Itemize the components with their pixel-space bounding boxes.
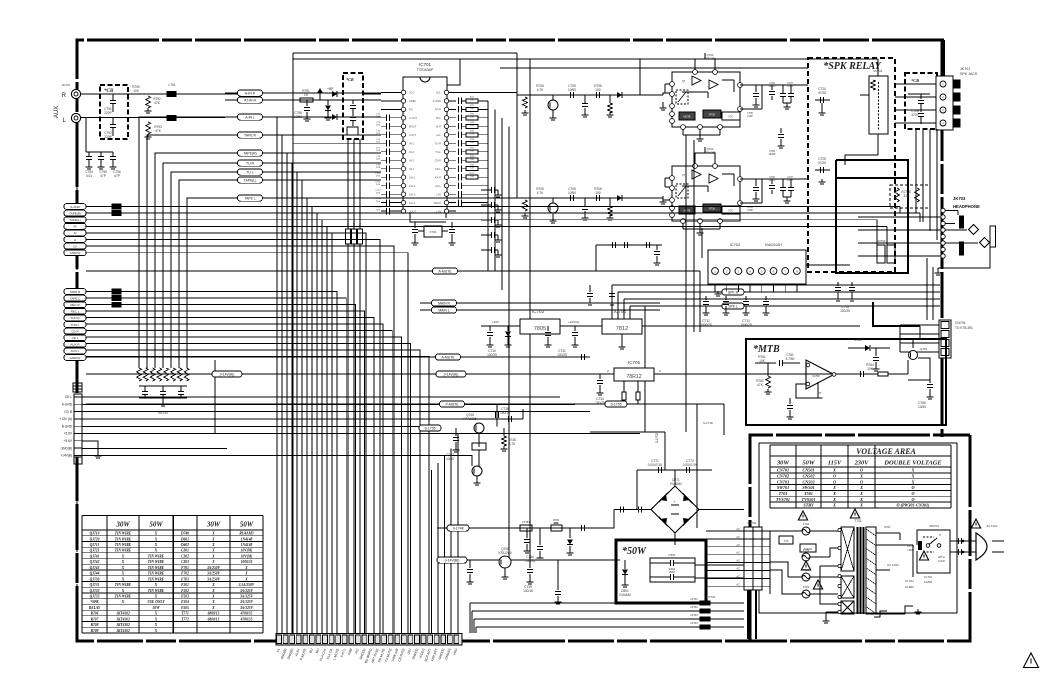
svg-text:L-IN: L-IN [436, 192, 441, 196]
svg-text:470P: 470P [911, 113, 918, 117]
svg-text:R728: R728 [709, 208, 715, 211]
svg-text:X: X [154, 549, 158, 553]
svg-text:O: O [860, 479, 863, 484]
svg-text:QJ730: QJ730 [90, 577, 100, 581]
svg-text:*SPK: *SPK [90, 600, 99, 604]
svg-text:CN701: CN701 [747, 521, 757, 525]
svg-text:AC: AC [736, 582, 740, 586]
svg-text:O: O [860, 468, 863, 473]
svg-text:10/50: 10/50 [568, 88, 576, 92]
svg-text:CN503: CN503 [802, 479, 814, 484]
svg-text:TAPE R: TAPE R [244, 134, 257, 138]
svg-text:P701: P701 [708, 595, 715, 599]
svg-text:R710: R710 [469, 173, 475, 175]
svg-text:47K: 47K [155, 129, 162, 133]
svg-text:100/16: 100/16 [500, 411, 510, 415]
svg-text:100/25: 100/25 [487, 353, 497, 357]
svg-text:MUTE: MUTE [684, 210, 691, 213]
svg-text:X: X [859, 485, 863, 490]
svg-text:TIN WIRE: TIN WIRE [148, 577, 165, 581]
svg-text:R: R [62, 93, 67, 99]
svg-text:CD L: CD L [65, 395, 72, 399]
svg-text:X: X [121, 554, 125, 558]
svg-text:AC: AC [736, 543, 740, 547]
svg-text:AX-R: AX-R [435, 175, 441, 179]
svg-text:*CB: *CB [911, 78, 919, 83]
svg-text:IC702: IC702 [730, 242, 741, 247]
svg-text:T701: T701 [854, 519, 861, 523]
svg-text:47/25: 47/25 [818, 161, 826, 165]
svg-text:TIN WIRE: TIN WIRE [115, 549, 132, 553]
svg-text:10K: 10K [759, 359, 766, 363]
svg-text:DI: DI [74, 244, 77, 248]
svg-text:+12V(A): +12V(A) [568, 320, 579, 324]
svg-text:TP-L: TP-L [435, 116, 441, 120]
svg-text:VOLTAGE AREA: VOLTAGE AREA [856, 447, 916, 456]
svg-text:TP781: TP781 [522, 520, 530, 524]
svg-text:F503: F503 [181, 595, 189, 599]
svg-text:F701: F701 [181, 566, 189, 570]
svg-text:AUX L: AUX L [71, 349, 80, 353]
svg-text:10K: 10K [470, 108, 474, 110]
svg-text:X: X [832, 485, 836, 490]
svg-text:10/50: 10/50 [294, 115, 302, 119]
svg-text:X: X [211, 560, 215, 564]
svg-text:S-1702: S-1702 [655, 433, 659, 444]
svg-text:TAPE R: TAPE R [70, 290, 81, 294]
svg-text:S-1718: S-1718 [703, 421, 713, 425]
svg-text:4700/35: 4700/35 [240, 612, 253, 616]
svg-text:A-IN L: A-IN L [245, 116, 255, 120]
svg-text:KTA1266: KTA1266 [704, 150, 716, 154]
svg-text:KTC: KTC [729, 116, 734, 119]
svg-text:F702: F702 [181, 572, 189, 576]
svg-text:S-1748: S-1748 [453, 527, 464, 531]
svg-text:CD R: CD R [64, 410, 72, 414]
svg-text:1N4148: 1N4148 [241, 543, 253, 547]
svg-text:QJ741: QJ741 [90, 554, 100, 558]
svg-text:O: O [911, 497, 914, 502]
svg-text:TP-R: TP-R [435, 108, 441, 112]
svg-text:LOCK: LOCK [938, 559, 945, 563]
svg-text:X701: X701 [429, 230, 436, 234]
svg-text:10K: 10K [470, 159, 474, 161]
svg-text:10/50: 10/50 [918, 405, 926, 409]
svg-text:CL701: CL701 [924, 575, 933, 579]
svg-text:LIN-2: LIN-2 [409, 184, 416, 188]
svg-text:TU L: TU L [246, 171, 253, 175]
svg-text:AC: AC [736, 527, 740, 531]
svg-text:X: X [244, 572, 248, 576]
svg-text:O: O [911, 485, 914, 490]
svg-text:LF704: LF704 [690, 621, 698, 625]
svg-text:1000P: 1000P [769, 153, 776, 156]
svg-text:F504: F504 [181, 600, 189, 604]
svg-text:KTA1266: KTA1266 [463, 417, 476, 421]
svg-text:TO KTB-391: TO KTB-391 [955, 326, 973, 330]
svg-text:A-CNT: A-CNT [409, 116, 417, 120]
svg-text:X: X [121, 566, 125, 570]
svg-text:X: X [154, 617, 158, 621]
svg-text:SW701: SW701 [929, 524, 939, 528]
svg-text:GND(S): GND(S) [70, 251, 81, 255]
svg-text:MOUT: MOUT [409, 125, 417, 129]
svg-text:*MTB: *MTB [753, 344, 780, 355]
svg-text:50W: 50W [149, 521, 163, 529]
svg-text:7812: 7812 [616, 326, 628, 332]
svg-text:SW501: SW501 [802, 485, 814, 490]
svg-text:100: 100 [595, 191, 601, 195]
svg-text:+5.6V: +5.6V [64, 439, 73, 443]
svg-text:T772: T772 [181, 617, 189, 621]
svg-text:X: X [911, 479, 915, 484]
svg-text:S-1705: S-1705 [611, 403, 622, 407]
svg-text:0.0047/1K: 0.0047/1K [683, 463, 698, 467]
svg-text:IC701: IC701 [419, 62, 432, 67]
svg-text:6800/15: 6800/15 [208, 612, 220, 616]
svg-text:SCL: SCL [436, 91, 442, 95]
svg-text:LF702: LF702 [690, 605, 698, 609]
svg-text:LIN-1: LIN-1 [409, 175, 416, 179]
svg-text:T701: T701 [779, 491, 788, 496]
svg-text:TVS701: TVS701 [776, 497, 790, 502]
svg-text:C710: C710 [375, 173, 381, 175]
svg-text:100: 100 [595, 88, 601, 92]
svg-text:AUX: AUX [54, 106, 60, 118]
svg-text:RI: RI [74, 225, 77, 229]
svg-text:TAPE(R): TAPE(R) [69, 211, 81, 215]
svg-text:IC705: IC705 [628, 360, 641, 365]
svg-text:QJ731: QJ731 [90, 583, 100, 587]
svg-text:270P: 270P [747, 209, 753, 212]
svg-text:X: X [154, 532, 158, 536]
svg-text:3A/250V: 3A/250V [206, 572, 221, 576]
svg-text:1KT4102: 1KT4102 [116, 623, 130, 627]
svg-text:CD-R: CD-R [435, 158, 442, 162]
svg-text:C714: C714 [375, 207, 381, 209]
svg-text:TC9163AP: TC9163AP [417, 68, 434, 72]
svg-text:X: X [211, 532, 215, 536]
svg-text:4.7K: 4.7K [537, 191, 544, 195]
svg-text:RT: RT [818, 391, 822, 395]
svg-text:6800/15: 6800/15 [208, 617, 220, 621]
svg-text:X: X [859, 473, 863, 478]
svg-text:4.7/50: 4.7/50 [786, 357, 795, 361]
svg-text:TIN WIRE: TIN WIRE [115, 583, 132, 587]
svg-text:AC: AC [736, 559, 740, 563]
svg-text:X: X [832, 491, 836, 496]
svg-text:X: X [211, 589, 215, 593]
svg-text:115V: 115V [828, 460, 842, 467]
svg-text:C712: C712 [375, 190, 381, 192]
svg-text:TIN WIRE: TIN WIRE [148, 560, 165, 564]
svg-text:3A/125V: 3A/125V [239, 600, 254, 604]
svg-text:4.7K: 4.7K [537, 88, 544, 92]
svg-text:X: X [244, 566, 248, 570]
svg-text:3A/250V: 3A/250V [206, 566, 221, 570]
svg-text:QJ720: QJ720 [90, 537, 100, 541]
svg-text:X: X [211, 600, 215, 604]
svg-text:D601: D601 [180, 537, 189, 541]
svg-text:AT-IN R: AT-IN R [244, 99, 256, 103]
svg-text:X: X [154, 629, 158, 633]
svg-text:RELAY: RELAY [89, 606, 101, 610]
svg-text:L791: L791 [168, 83, 175, 87]
svg-text:3.5A/250V: 3.5A/250V [238, 583, 255, 587]
svg-text:X: X [154, 595, 158, 599]
svg-text:TIN WIRE: TIN WIRE [148, 554, 165, 558]
svg-text:X: X [121, 577, 125, 581]
svg-text:50W: 50W [240, 521, 254, 529]
svg-text:1000/35: 1000/35 [241, 560, 253, 564]
svg-text:C711: C711 [375, 181, 381, 183]
svg-text:WITH: WITH [938, 555, 945, 559]
svg-text:AC 120V: AC 120V [986, 524, 997, 528]
svg-text:MUTE: MUTE [684, 116, 691, 119]
svg-text:+13V (A): +13V (A) [59, 417, 72, 421]
svg-text:100: 100 [133, 89, 139, 93]
svg-text:R708: R708 [91, 623, 99, 627]
svg-text:CD L: CD L [72, 336, 79, 340]
svg-text:IC703: IC703 [532, 309, 545, 314]
svg-text:*50W: *50W [622, 546, 647, 557]
svg-text:R709: R709 [91, 629, 99, 633]
svg-text:X: X [211, 583, 215, 587]
svg-text:TAPE(L): TAPE(L) [244, 179, 257, 183]
svg-text:A-GND: A-GND [62, 403, 73, 407]
svg-text:0.015: 0.015 [787, 179, 794, 182]
svg-text:O: O [833, 473, 836, 478]
svg-text:+16V: +16V [492, 320, 499, 324]
svg-text:X: X [154, 537, 158, 541]
svg-text:A-IN R: A-IN R [245, 92, 256, 96]
svg-text:TIN WIRE: TIN WIRE [115, 595, 132, 599]
svg-text:D761: D761 [854, 338, 862, 342]
svg-text:220P: 220P [104, 111, 111, 115]
svg-text:S701: S701 [884, 525, 891, 529]
svg-text:4.7K: 4.7K [509, 442, 516, 446]
svg-text:X: X [154, 543, 158, 547]
svg-text:P: P [939, 533, 941, 537]
svg-text:QJ742: QJ742 [90, 560, 100, 564]
svg-text:(+14V(A)): (+14V(A)) [444, 373, 459, 377]
svg-text:10K: 10K [470, 142, 474, 144]
svg-text:RU4AM: RU4AM [619, 593, 631, 597]
svg-text:CREF: CREF [409, 99, 416, 103]
svg-text:1N4148: 1N4148 [241, 537, 253, 541]
svg-text:MAIN R: MAIN R [438, 302, 450, 306]
svg-text:47/25: 47/25 [818, 91, 826, 95]
svg-text:7805: 7805 [534, 326, 546, 332]
svg-text:IC704: IC704 [614, 309, 627, 314]
svg-text:REC L: REC L [71, 310, 80, 314]
svg-text:C301: C301 [181, 549, 189, 553]
svg-text:X: X [244, 577, 248, 581]
svg-text:R707: R707 [91, 617, 99, 621]
svg-text:TU R: TU R [246, 162, 254, 166]
svg-text:47K: 47K [154, 101, 161, 105]
svg-text:A-GND: A-GND [70, 205, 81, 209]
svg-text:TVS: TVS [783, 539, 788, 543]
svg-text:CN501: CN501 [802, 468, 814, 473]
svg-text:D740: D740 [180, 532, 189, 536]
svg-text:1000P: 1000P [769, 179, 776, 182]
svg-text:X: X [211, 606, 215, 610]
svg-text:30W: 30W [206, 521, 221, 529]
svg-text:X: X [211, 554, 215, 558]
svg-text:AC: AC [736, 574, 740, 578]
svg-text:C302: C302 [181, 554, 189, 558]
svg-text:O: O [833, 479, 836, 484]
svg-text:HEADPHONE: HEADPHONE [953, 204, 980, 209]
svg-text:CD-L: CD-L [435, 167, 442, 171]
svg-text:MAIN L: MAIN L [438, 309, 449, 313]
svg-text:S-1705: S-1705 [425, 427, 436, 431]
svg-text:JK702: JK702 [61, 83, 70, 87]
svg-text:X: X [121, 589, 125, 593]
svg-text:TVS501: TVS501 [802, 497, 816, 502]
svg-text:RU4AM3: RU4AM3 [239, 532, 253, 536]
svg-text:X: X [211, 537, 215, 541]
svg-text:X: X [121, 600, 125, 604]
svg-text:10K: 10K [470, 176, 474, 178]
svg-text:TVS701: TVS701 [804, 548, 813, 551]
svg-text:30W: 30W [776, 460, 790, 467]
svg-text:X: X [859, 503, 863, 508]
svg-text:CL701: CL701 [905, 579, 914, 583]
svg-text:Q761: Q761 [920, 347, 928, 351]
svg-text:TAPE L: TAPE L [244, 197, 256, 201]
svg-text:X: X [911, 473, 915, 478]
svg-text:100/16: 100/16 [525, 559, 535, 563]
svg-text:100/25: 100/25 [595, 401, 605, 405]
svg-text:10/50: 10/50 [446, 457, 454, 461]
svg-text:X: X [832, 468, 836, 473]
svg-text:O: O [911, 491, 914, 496]
svg-text:10V(M): 10V(M) [241, 554, 253, 558]
svg-text:16WT: 16WT [669, 570, 676, 574]
svg-text:3A/125V: 3A/125V [239, 606, 254, 610]
svg-text:TAPE(R): TAPE(R) [243, 152, 256, 156]
svg-text:AC: AC [736, 551, 740, 555]
svg-text:QJ743: QJ743 [90, 566, 100, 570]
svg-text:100/16: 100/16 [523, 589, 533, 593]
svg-text:C303: C303 [181, 560, 189, 564]
svg-text:+14V(B): +14V(B) [60, 454, 72, 458]
svg-text:F502: F502 [181, 589, 189, 593]
svg-text:100/25: 100/25 [557, 353, 567, 357]
svg-text:IN-4: IN-4 [409, 167, 414, 171]
svg-text:CL802: CL802 [924, 580, 933, 584]
svg-text:GND(S): GND(S) [70, 356, 81, 360]
svg-text:TIN WIRE: TIN WIRE [115, 532, 132, 536]
svg-text:+BP: +BP [327, 87, 334, 91]
svg-text:AI: AI [74, 231, 77, 235]
svg-text:+5.6V: +5.6V [64, 432, 73, 436]
svg-text:A-MUTE: A-MUTE [439, 270, 453, 274]
svg-text:X: X [154, 612, 158, 616]
svg-text:AUX R: AUX R [70, 343, 80, 347]
svg-text:F704: F704 [803, 585, 810, 589]
svg-text:SPK R: SPK R [728, 291, 739, 295]
svg-text:IN-3: IN-3 [409, 158, 414, 162]
svg-text:3A/125V: 3A/125V [239, 595, 254, 599]
svg-text:R728: R728 [709, 114, 715, 117]
svg-text:R782: R782 [553, 518, 560, 522]
svg-text:DOUBLE VOLTAGE: DOUBLE VOLTAGE [883, 460, 941, 467]
svg-text:X: X [154, 623, 158, 627]
svg-text:TUN L: TUN L [71, 323, 80, 327]
svg-text:220P: 220P [104, 135, 111, 139]
svg-text:C713: C713 [375, 198, 381, 200]
svg-text:*CB: *CB [346, 77, 354, 82]
svg-text:T771: T771 [181, 612, 189, 616]
svg-text:QJ733: QJ733 [90, 595, 100, 599]
svg-text:S-GND: S-GND [433, 99, 441, 103]
svg-text:270P: 270P [747, 115, 753, 118]
svg-text:47P: 47P [114, 174, 120, 178]
svg-text:X: X [859, 497, 863, 502]
svg-text:SPK L: SPK L [728, 305, 738, 309]
svg-text:LF701: LF701 [690, 597, 698, 601]
svg-text:F701: F701 [803, 522, 810, 526]
svg-text:TIN WIRE: TIN WIRE [148, 589, 165, 593]
svg-text:F505: F505 [181, 606, 189, 610]
svg-text:230V: 230V [854, 460, 870, 467]
svg-text:TIN WIRE: TIN WIRE [148, 572, 165, 576]
svg-text:X: X [911, 468, 915, 473]
svg-text:100/25: 100/25 [840, 309, 850, 313]
svg-text:STBY: STBY [803, 503, 814, 508]
svg-text:QJ732: QJ732 [90, 589, 100, 593]
svg-text:CN704: CN704 [955, 321, 966, 325]
svg-text:CN703: CN703 [777, 479, 789, 484]
svg-text:X: X [211, 549, 215, 553]
svg-text:50W: 50W [802, 460, 815, 467]
svg-text:4700/35: 4700/35 [240, 617, 253, 621]
svg-text:TIN WIRE: TIN WIRE [115, 537, 132, 541]
svg-text:0.015: 0.015 [787, 85, 794, 88]
svg-text:A-MUTE: A-MUTE [442, 356, 456, 360]
svg-text:AC 120V: AC 120V [887, 563, 899, 567]
svg-text:SW701: SW701 [777, 485, 789, 490]
svg-text:CN701: CN701 [777, 468, 789, 473]
svg-text:TIN WIRE: TIN WIRE [115, 543, 132, 547]
svg-text:10K: 10K [470, 125, 474, 127]
svg-text:C501: C501 [668, 553, 676, 557]
svg-text:QJ744: QJ744 [90, 572, 100, 576]
svg-text:*CB: *CB [104, 89, 114, 94]
svg-text:REC R: REC R [70, 303, 80, 307]
svg-text:0.0047/1K: 0.0047/1K [648, 463, 663, 467]
svg-text:CL802: CL802 [905, 585, 914, 589]
svg-text:JK701: JK701 [960, 67, 970, 71]
svg-text:KIA6210AH: KIA6210AH [765, 243, 782, 247]
svg-text:TIN WIRE: TIN WIRE [148, 566, 165, 570]
svg-text:10/50: 10/50 [568, 191, 576, 195]
svg-text:1KT4102: 1KT4102 [116, 629, 130, 633]
svg-text:10K: 10K [470, 133, 474, 135]
svg-text:X: X [121, 572, 125, 576]
svg-text:(+14V(A)): (+14V(A)) [220, 373, 235, 377]
svg-text:KTC: KTC [729, 210, 734, 213]
svg-text:LI: LI [74, 238, 77, 242]
svg-text:10V(M): 10V(M) [241, 549, 253, 553]
svg-text:TAPE(L): TAPE(L) [69, 218, 80, 222]
svg-text:10K: 10K [470, 116, 474, 118]
svg-text:CD R: CD R [71, 329, 79, 333]
svg-text:1KT4102: 1KT4102 [116, 612, 130, 616]
